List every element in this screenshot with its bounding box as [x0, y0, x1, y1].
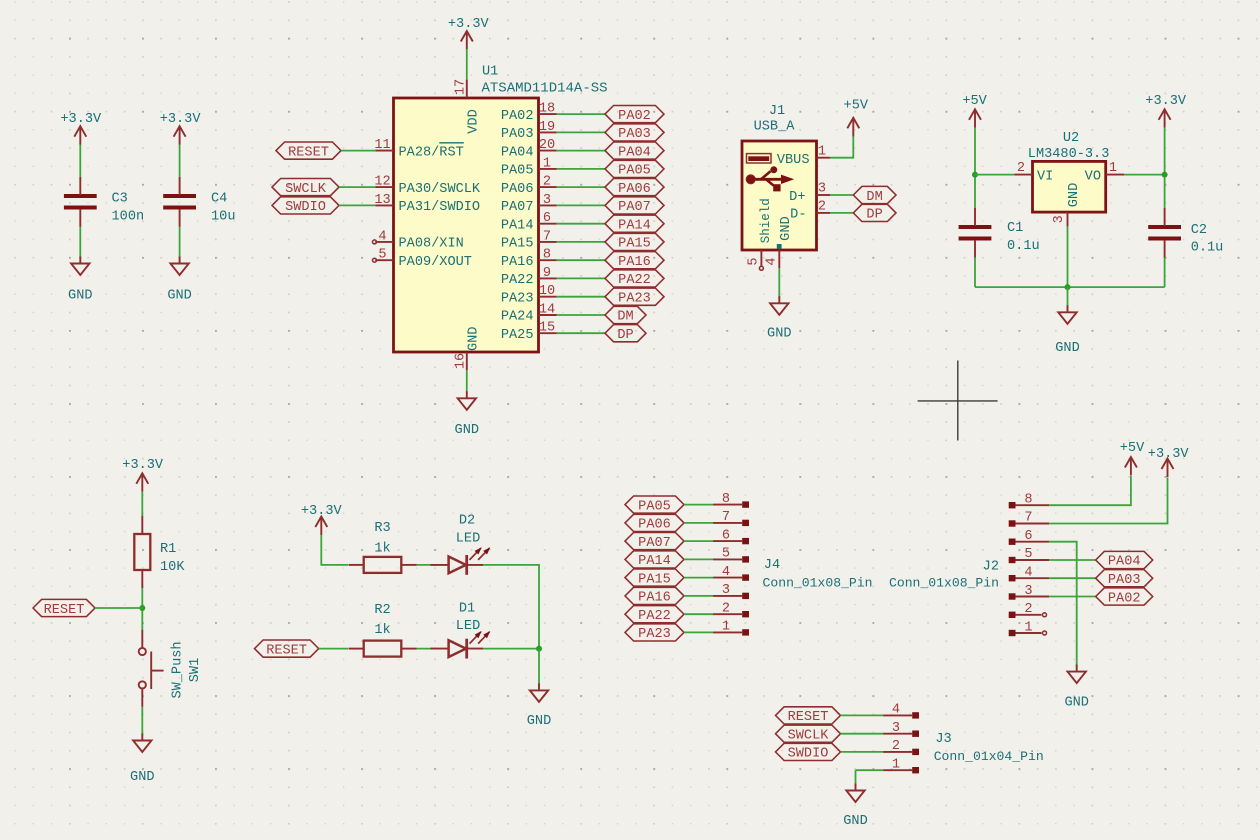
svg-text:+3.3V: +3.3V [60, 112, 102, 127]
svg-text:+3.3V: +3.3V [122, 458, 164, 473]
svg-text:PA07: PA07 [638, 536, 671, 551]
svg-text:PA04: PA04 [501, 145, 534, 160]
svg-text:U1: U1 [482, 64, 498, 79]
svg-text:PA16: PA16 [618, 255, 651, 270]
svg-text:15: 15 [539, 321, 555, 336]
svg-text:7: 7 [722, 510, 730, 525]
svg-text:D1: D1 [459, 601, 475, 616]
svg-text:RESET: RESET [788, 710, 829, 725]
svg-text:PA24: PA24 [501, 310, 534, 325]
svg-text:2: 2 [543, 175, 551, 190]
svg-text:100n: 100n [112, 209, 145, 224]
svg-text:11: 11 [374, 138, 390, 153]
svg-text:1: 1 [1109, 161, 1117, 176]
svg-text:C4: C4 [211, 191, 227, 206]
svg-text:PA14: PA14 [618, 218, 651, 233]
svg-text:PA03: PA03 [501, 127, 534, 142]
svg-text:10u: 10u [211, 209, 235, 224]
svg-text:GND: GND [779, 216, 794, 240]
svg-text:USB_A: USB_A [754, 119, 796, 134]
svg-text:7: 7 [1024, 511, 1032, 526]
svg-text:6: 6 [1024, 529, 1032, 544]
svg-text:PA06: PA06 [638, 518, 671, 533]
svg-text:GND: GND [843, 814, 867, 829]
svg-text:5: 5 [1024, 547, 1032, 562]
svg-text:ATSAMD11D14A-SS: ATSAMD11D14A-SS [482, 80, 608, 96]
svg-text:PA16: PA16 [501, 255, 534, 270]
svg-text:PA09/XOUT: PA09/XOUT [399, 255, 472, 270]
svg-text:19: 19 [539, 120, 555, 135]
svg-text:8: 8 [543, 248, 551, 263]
svg-text:2: 2 [892, 739, 900, 754]
svg-text:GND: GND [466, 327, 481, 351]
svg-text:Shield: Shield [759, 198, 773, 243]
svg-text:PA14: PA14 [638, 554, 671, 569]
svg-text:J4: J4 [764, 558, 780, 573]
svg-text:PA23: PA23 [638, 627, 671, 642]
svg-text:SWDIO: SWDIO [788, 747, 829, 762]
svg-text:J2: J2 [983, 559, 999, 574]
svg-text:10: 10 [539, 284, 555, 299]
svg-text:3: 3 [722, 583, 730, 598]
svg-text:SW_Push: SW_Push [170, 641, 185, 698]
svg-text:PA15: PA15 [618, 237, 651, 252]
svg-text:GND: GND [1055, 341, 1079, 356]
svg-text:+3.3V: +3.3V [1148, 447, 1190, 462]
svg-text:PA22: PA22 [618, 273, 651, 288]
svg-text:0.1u: 0.1u [1007, 239, 1040, 254]
svg-text:GND: GND [167, 288, 191, 303]
svg-text:+3.3V: +3.3V [1145, 94, 1187, 109]
svg-text:5: 5 [378, 248, 386, 263]
svg-text:4: 4 [764, 257, 779, 265]
svg-text:PA06: PA06 [618, 182, 651, 197]
svg-text:GND: GND [527, 714, 551, 729]
svg-text:RESET: RESET [288, 145, 329, 160]
svg-text:R3: R3 [374, 521, 390, 536]
svg-text:1: 1 [892, 757, 900, 772]
svg-text:GND: GND [130, 770, 154, 785]
svg-text:+3.3V: +3.3V [301, 504, 343, 519]
svg-text:LED: LED [456, 531, 480, 546]
svg-text:C2: C2 [1191, 223, 1207, 238]
svg-text:5: 5 [722, 547, 730, 562]
svg-text:J3: J3 [935, 732, 951, 747]
svg-text:4: 4 [722, 565, 730, 580]
svg-text:Conn_01x08_Pin: Conn_01x08_Pin [889, 576, 999, 591]
svg-text:PA23: PA23 [501, 292, 534, 307]
svg-text:D2: D2 [459, 514, 475, 529]
svg-text:8: 8 [1024, 493, 1032, 508]
svg-text:PA04: PA04 [1108, 555, 1141, 570]
svg-text:D+: D+ [789, 190, 805, 205]
svg-text:Conn_01x08_Pin: Conn_01x08_Pin [763, 576, 873, 591]
svg-text:3: 3 [1024, 584, 1032, 599]
svg-text:PA02: PA02 [1108, 591, 1141, 606]
svg-text:1k: 1k [374, 541, 390, 556]
svg-text:2: 2 [1017, 161, 1025, 176]
svg-text:GND: GND [767, 327, 791, 342]
svg-text:PA16: PA16 [638, 591, 671, 606]
svg-text:SW1: SW1 [188, 658, 203, 682]
svg-text:18: 18 [539, 102, 555, 117]
svg-text:+5V: +5V [1120, 441, 1145, 456]
svg-text:VI: VI [1037, 169, 1053, 184]
svg-text:U2: U2 [1063, 131, 1079, 146]
svg-text:+5V: +5V [962, 94, 987, 109]
svg-text:2: 2 [722, 601, 730, 616]
svg-text:PA05: PA05 [618, 164, 651, 179]
svg-text:PA22: PA22 [501, 273, 534, 288]
svg-text:6: 6 [722, 528, 730, 543]
svg-text:PA23: PA23 [618, 292, 651, 307]
svg-text:R1: R1 [160, 542, 176, 557]
svg-text:RESET: RESET [44, 603, 85, 618]
svg-text:Conn_01x04_Pin: Conn_01x04_Pin [934, 749, 1044, 764]
svg-text:1: 1 [818, 144, 826, 159]
svg-text:9: 9 [543, 266, 551, 281]
svg-text:8: 8 [722, 492, 730, 507]
svg-text:16: 16 [453, 353, 468, 369]
svg-text:GND: GND [68, 288, 92, 303]
svg-text:4: 4 [1024, 566, 1032, 581]
svg-text:7: 7 [543, 229, 551, 244]
svg-text:PA15: PA15 [501, 237, 534, 252]
svg-text:VDD: VDD [466, 109, 481, 133]
svg-text:PA05: PA05 [501, 164, 534, 179]
svg-text:20: 20 [539, 138, 555, 153]
svg-text:PA08/XIN: PA08/XIN [399, 237, 464, 252]
svg-text:DM: DM [866, 190, 882, 205]
svg-text:PA04: PA04 [618, 145, 651, 160]
svg-text:C1: C1 [1007, 221, 1023, 236]
svg-text:14: 14 [539, 302, 555, 317]
svg-text:10K: 10K [160, 560, 185, 575]
svg-text:2: 2 [818, 200, 826, 215]
svg-text:+3.3V: +3.3V [448, 17, 490, 32]
svg-text:1: 1 [1024, 620, 1032, 635]
svg-text:VBUS: VBUS [777, 153, 810, 168]
svg-text:+5V: +5V [844, 99, 869, 114]
svg-text:PA22: PA22 [638, 609, 671, 624]
svg-text:3: 3 [892, 721, 900, 736]
svg-text:PA05: PA05 [638, 499, 671, 514]
svg-text:PA15: PA15 [638, 572, 671, 587]
svg-text:GND: GND [1067, 183, 1082, 207]
svg-text:PA03: PA03 [618, 127, 651, 142]
svg-text:PA31/SWDIO: PA31/SWDIO [399, 200, 481, 215]
svg-text:DM: DM [617, 310, 633, 325]
svg-text:1: 1 [722, 620, 730, 635]
svg-text:PA02: PA02 [618, 109, 651, 124]
svg-text:PA03: PA03 [1108, 573, 1141, 588]
svg-text:DP: DP [617, 328, 633, 343]
svg-text:R2: R2 [374, 603, 390, 618]
svg-text:C3: C3 [112, 191, 128, 206]
svg-text:3: 3 [543, 193, 551, 208]
svg-text:3: 3 [1052, 215, 1067, 223]
svg-text:LED: LED [456, 619, 480, 634]
svg-text:3: 3 [818, 182, 826, 197]
svg-text:PA07: PA07 [501, 200, 534, 215]
svg-text:PA14: PA14 [501, 218, 534, 233]
svg-text:PA25: PA25 [501, 328, 534, 343]
svg-text:SWDIO: SWDIO [285, 200, 326, 215]
svg-text:+3.3V: +3.3V [160, 112, 202, 127]
svg-text:12: 12 [374, 175, 390, 190]
svg-text:GND: GND [455, 423, 479, 438]
svg-text:2: 2 [1024, 602, 1032, 617]
svg-text:SWCLK: SWCLK [788, 728, 830, 743]
svg-text:17: 17 [453, 79, 468, 95]
svg-text:SWCLK: SWCLK [285, 182, 327, 197]
svg-text:PA30/SWCLK: PA30/SWCLK [399, 182, 481, 197]
svg-text:GND: GND [1064, 696, 1088, 711]
svg-text:1: 1 [543, 156, 551, 171]
svg-text:LM3480-3.3: LM3480-3.3 [1028, 147, 1110, 162]
svg-text:5: 5 [746, 257, 761, 265]
svg-text:RESET: RESET [266, 643, 307, 658]
svg-text:J1: J1 [769, 104, 785, 119]
svg-text:6: 6 [543, 211, 551, 226]
svg-text:PA06: PA06 [501, 182, 534, 197]
svg-text:VO: VO [1085, 169, 1101, 184]
svg-text:1k: 1k [374, 623, 390, 638]
svg-text:13: 13 [374, 193, 390, 208]
svg-text:PA28/RST: PA28/RST [399, 145, 464, 160]
svg-text:PA02: PA02 [501, 109, 534, 124]
svg-text:4: 4 [892, 703, 900, 718]
svg-text:0.1u: 0.1u [1191, 241, 1224, 256]
svg-text:PA07: PA07 [618, 200, 651, 215]
svg-text:DP: DP [866, 208, 882, 223]
svg-text:4: 4 [378, 229, 386, 244]
